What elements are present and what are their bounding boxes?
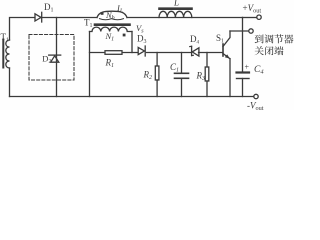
svg-text:T1: T1	[1, 32, 10, 44]
svg-text:D1: D1	[44, 2, 54, 14]
wire top rail right of junction to +Vout circle	[243, 17, 257, 19]
polarity dot Nb	[101, 12, 104, 15]
svg-text:+Vout: +Vout	[243, 3, 262, 15]
dashed box (snubber)	[29, 35, 74, 81]
N1 right lead	[131, 32, 133, 53]
bottom rail	[10, 96, 254, 98]
terminal circle (to regulator)	[249, 29, 253, 33]
capacitor C1 top lead	[181, 53, 183, 74]
resistor R3 (vertical)	[205, 67, 209, 81]
C4 bottom lead	[242, 79, 244, 97]
transistor S1 base bar	[222, 44, 224, 56]
transformer T1 top winding Nb arch	[97, 11, 127, 17]
emitter arrowhead	[225, 54, 230, 58]
wire vertical through dashed box	[56, 18, 58, 97]
resistor R1 (horizontal)	[105, 51, 122, 55]
wire top rail arch-to-Vcc	[127, 17, 243, 19]
svg-text:R2: R2	[143, 69, 153, 81]
C1 bottom lead	[181, 78, 183, 96]
wire +Vout drop to C4	[242, 18, 244, 72]
svg-text:L: L	[173, 0, 179, 8]
svg-text:D4: D4	[190, 34, 200, 46]
emitter vertical to rail	[229, 59, 231, 97]
diode D2 (vertical, cathode up)	[49, 54, 61, 56]
svg-text:+: +	[245, 63, 250, 72]
resistor R2 (vertical)	[155, 66, 159, 80]
Nb winding scallops	[100, 19, 124, 20]
text to-regulator-shutdown (vectorized CJK)	[255, 34, 294, 55]
wire secondary horizontal	[90, 52, 140, 54]
svg-text:D3: D3	[137, 33, 147, 45]
diode D4 (zener, pointing left)	[191, 46, 193, 55]
R3 bottom lead	[206, 81, 208, 97]
wire collector node horizontal	[230, 30, 249, 32]
svg-text:R1: R1	[105, 58, 115, 70]
-Vout terminal circle	[254, 94, 258, 98]
capacitor C4 (polarized)	[237, 71, 250, 73]
wire left vertical down to bottom rail	[9, 68, 11, 97]
wire from D3 to D4	[147, 52, 192, 54]
diode D1	[35, 14, 41, 21]
svg-text:N1: N1	[105, 31, 115, 43]
transistor S1 collector	[223, 31, 230, 47]
resistor R2 lead	[156, 53, 158, 67]
svg-text:-Vout: -Vout	[247, 101, 264, 110]
diode D3	[138, 47, 144, 54]
capacitor C1	[175, 72, 189, 74]
inductor L core bar	[160, 7, 192, 10]
N1 left lead / secondary return wire to bottom rail	[89, 32, 91, 97]
svg-text:C4: C4	[254, 65, 264, 76]
svg-text:T1: T1	[84, 18, 93, 30]
+Vout terminal circle	[257, 15, 261, 19]
wire top rail from left corner to +Vout	[10, 18, 98, 41]
transformer T1 secondary winding N1	[90, 27, 133, 31]
svg-text:C1: C1	[170, 62, 179, 74]
inductor L winding	[159, 11, 192, 17]
wire from D4 to base	[199, 52, 223, 54]
svg-text:S1: S1	[216, 33, 224, 45]
polarity dot N1	[123, 34, 126, 37]
transformer T1 left winding	[6, 40, 10, 68]
svg-text:R3: R3	[196, 71, 206, 83]
R2 bottom lead	[156, 80, 158, 97]
transformer T1 left core bar	[2, 40, 4, 68]
svg-text:IL: IL	[116, 3, 124, 15]
transistor S1 emitter	[223, 54, 230, 59]
resistor R3 lead	[206, 53, 208, 68]
transformer T1 core bar	[95, 23, 130, 26]
